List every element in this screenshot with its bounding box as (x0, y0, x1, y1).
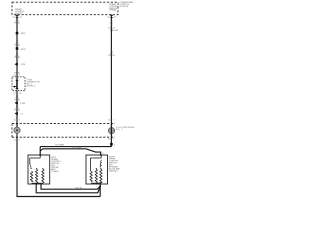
splice S303 at switch feed (110, 143, 113, 146)
left speed control switch box (28, 155, 50, 184)
clockspring right contact (grey circle) (111, 124, 113, 138)
svg-text:2: 2 (19, 75, 20, 77)
wire label 18 V37 RD/LG (right second) (108, 51, 115, 57)
svg-text:TN/RD: TN/RD (14, 45, 21, 47)
pin C1-7 above clockspring right (108, 120, 114, 122)
pin C2-7 below clockspring right (108, 138, 114, 140)
in-line connector C126 (15, 63, 18, 66)
svg-text:TN/RD: TN/RD (14, 99, 21, 101)
svg-text:4: 4 (19, 139, 20, 141)
in-line connector C1 (column) (15, 112, 18, 115)
svg-text:12: 12 (20, 16, 22, 18)
svg-text:SIGNAL: SIGNAL (109, 9, 117, 12)
wire label 18 V36 TN/RD (third) (14, 53, 21, 59)
wire label 18 V36 TN/RD (fifth) (14, 106, 21, 112)
pin C2-15 (right PCM pin symbol) (110, 16, 113, 18)
joint connector no.1 box (dashed) (12, 77, 25, 91)
PCM name label: POWERTRAIN CONTROL MODULE (120, 1, 134, 8)
right switch contact blade (101, 160, 102, 161)
pin 2 (joint connector top pin) (13, 75, 19, 77)
left switch label (51, 157, 62, 173)
wire: upper feed rail to left switch (40, 147, 111, 155)
splice S261 (16, 32, 19, 35)
svg-text:C2: C2 (13, 139, 15, 141)
svg-text:C2: C2 (13, 16, 15, 18)
right switch output terminal (100, 182, 102, 185)
pin C2-4 below clockspring left (13, 139, 19, 141)
right switch label (109, 157, 121, 173)
wire label 18 V36 TN/RD (second) (14, 41, 21, 47)
wire: bottom return rail up to junction (99, 187, 101, 197)
svg-text:V37 18: V37 18 (75, 188, 82, 190)
joint connector arrow terminal (13, 86, 15, 88)
svg-text:7: 7 (113, 138, 114, 140)
wire label 18 V36 TN/RD (upper left) (14, 18, 21, 24)
svg-text:(IN PDC): (IN PDC) (27, 85, 35, 87)
svg-text:HT 20WH: HT 20WH (73, 147, 82, 149)
wire: left wire from joint connector to clockspring (16, 91, 18, 128)
svg-text:16: 16 (19, 93, 21, 95)
joint connector label (27, 79, 40, 87)
wire: left return wire down to bottom rail (17, 137, 100, 196)
svg-text:NO. 1: NO. 1 (116, 129, 123, 131)
svg-text:COAST): COAST) (51, 170, 59, 173)
svg-text:2: 2 (114, 144, 115, 146)
right switch resistors (90, 169, 102, 183)
junction node below right switch (99, 186, 101, 188)
PCM left pin label: SPEED CONTROL SUPPLY (15, 9, 26, 15)
splice S232 (16, 47, 19, 50)
clockspring label (116, 127, 135, 131)
svg-text:C2: C2 (107, 16, 109, 18)
wire: left supply wire from PCM down to joint connector (16, 15, 18, 77)
pin C2-12 (left PCM pin symbol) (16, 16, 19, 18)
terminal at left switch feed (39, 154, 41, 156)
svg-text:MODULE: MODULE (120, 6, 129, 8)
svg-text:CANCEL): CANCEL) (109, 170, 118, 173)
wire label 18 V37 RD/LG (upper right) (108, 21, 115, 29)
pin 16 (joint connector bottom pin) (13, 93, 21, 95)
right switch resistor terminals (96, 168, 97, 169)
left switch resistor terminals (36, 168, 37, 169)
splice S264 (111, 29, 113, 31)
right speed control switch box (86, 155, 108, 184)
left switch contact blade (29, 163, 30, 164)
svg-text:7: 7 (113, 120, 114, 122)
svg-text:C1: C1 (108, 120, 110, 122)
svg-text:S264: S264 (114, 30, 118, 32)
wire label 18 V36 TN/RD (fourth) (14, 96, 21, 102)
clockspring boundary box (dashed) (12, 124, 115, 138)
svg-text:TN/RD: TN/RD (14, 72, 21, 74)
joint connector bottom tick (16, 89, 19, 91)
clockspring left contact (grey circle) (16, 124, 18, 138)
PCM right pin label: SPEED CONTROL SWITCH SIGNAL (109, 4, 120, 12)
wire: left switch leg A to junction (41, 183, 100, 189)
svg-text:RD/LG: RD/LG (108, 55, 115, 57)
svg-text:15: 15 (114, 16, 116, 18)
svg-text:C1: C1 (13, 93, 15, 95)
svg-text:RD/LG: RD/LG (108, 27, 115, 29)
joint connector internal bus (14, 77, 19, 89)
wire: right signal wire from PCM to splice (110, 15, 112, 147)
svg-text:TN/RD: TN/RD (14, 57, 21, 59)
svg-text:4: 4 (19, 120, 20, 122)
svg-text:HT 20WH: HT 20WH (55, 145, 64, 147)
svg-text:C1: C1 (13, 120, 15, 122)
svg-text:TN/RD: TN/RD (14, 22, 21, 24)
right switch top bar (91, 155, 102, 171)
left switch top bar (30, 155, 40, 163)
terminal at right switch feed (100, 154, 102, 156)
PCM module box (dashed) (12, 2, 118, 15)
left switch resistors (31, 169, 45, 183)
wire: lower rail between switches (40, 149, 100, 155)
in-line connector C203 (15, 102, 18, 105)
wire: left switch leg B to junction (36, 183, 100, 193)
svg-text:C2: C2 (108, 138, 110, 140)
svg-text:TN/RD: TN/RD (14, 110, 21, 112)
pin C1-4 above clockspring (13, 120, 19, 122)
svg-text:SUPPLY: SUPPLY (15, 13, 23, 15)
